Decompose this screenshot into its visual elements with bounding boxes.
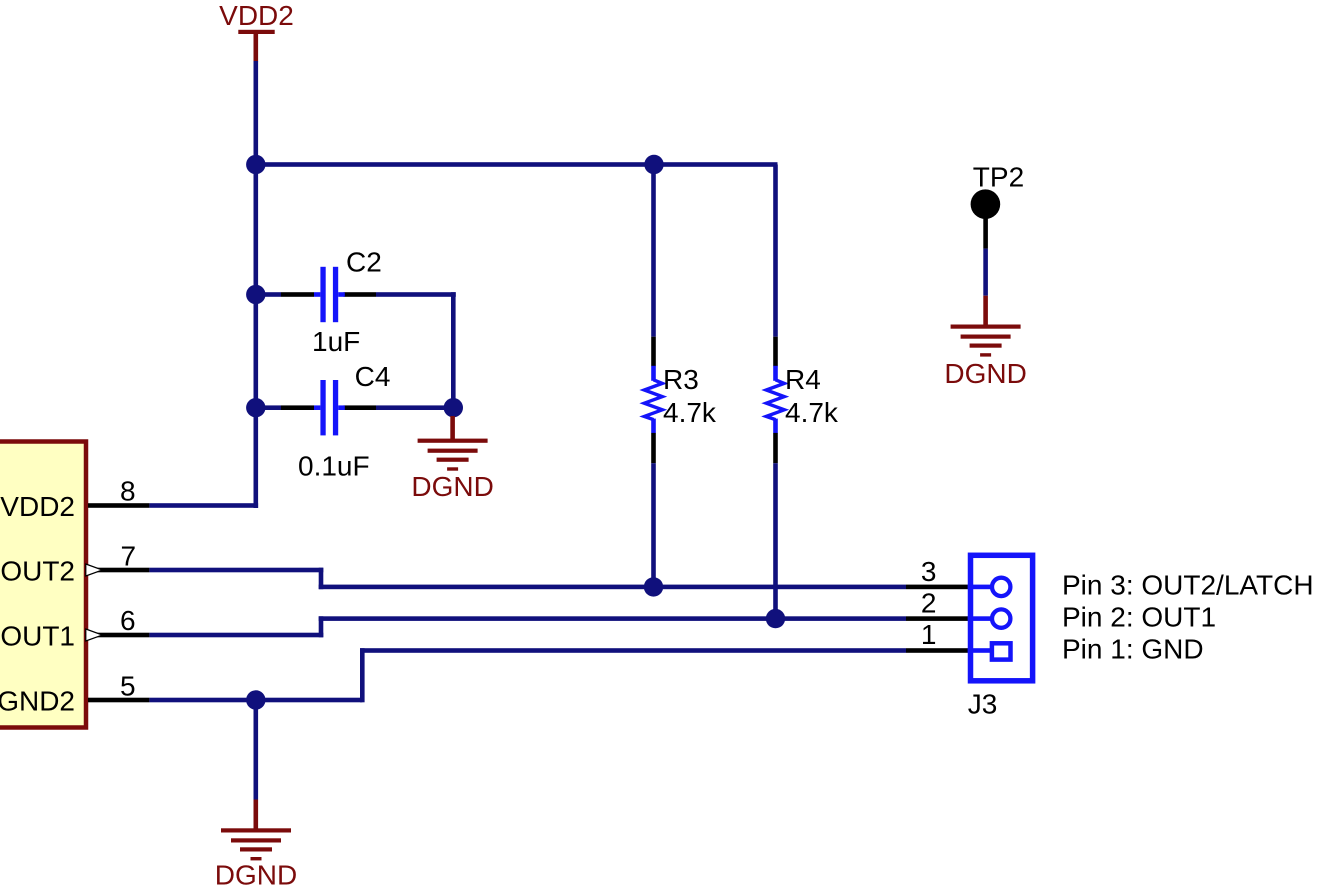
pin 6 lead xyxy=(88,633,149,638)
svg-text:C4: C4 xyxy=(355,361,391,392)
label Pin 1: GND xyxy=(1062,634,1204,665)
svg-text:DGND: DGND xyxy=(215,860,297,890)
J3 pin number 2 xyxy=(921,588,937,619)
svg-text:7: 7 xyxy=(121,541,137,572)
wire C2-C4 right vertical xyxy=(451,292,456,410)
capacitor C4 xyxy=(314,380,345,435)
svg-text:5: 5 xyxy=(120,671,136,702)
svg-text:TP2: TP2 xyxy=(973,161,1024,192)
junction dot R4/OUT1 xyxy=(766,609,785,628)
wire TP2 to ground xyxy=(983,249,988,296)
junction dot at C2 left xyxy=(246,285,265,304)
test point TP2 xyxy=(971,161,1025,248)
svg-text:0.1uF: 0.1uF xyxy=(298,451,370,482)
ground DGND (TP2) xyxy=(944,296,1026,389)
junction dot R3/OUT2 xyxy=(644,577,663,596)
J3 pin number 1 xyxy=(921,619,937,650)
value 1uF xyxy=(312,326,360,357)
svg-text:Pin 3: OUT2/LATCH: Pin 3: OUT2/LATCH xyxy=(1062,570,1314,601)
junction dot at C4 right xyxy=(444,398,463,417)
wire pin8 to rail xyxy=(149,503,258,508)
value 4.7k (R4) xyxy=(785,397,839,428)
wire top horizontal VDD2 rail xyxy=(254,162,778,167)
wire VDD2 vertical main xyxy=(254,61,259,508)
svg-text:6: 6 xyxy=(120,605,136,636)
value 4.7k (R3) xyxy=(663,397,717,428)
IC pin name VDD2 xyxy=(0,491,75,522)
pin 6 output triangle xyxy=(86,629,103,641)
svg-text:OUT2: OUT2 xyxy=(0,556,75,587)
wire OUT2 net xyxy=(149,568,969,590)
label J3 xyxy=(968,688,998,719)
pin number 8 xyxy=(120,476,136,507)
svg-text:DGND: DGND xyxy=(411,471,493,502)
ground DGND (near C4) xyxy=(411,416,493,502)
pin number 7 xyxy=(121,541,137,572)
svg-text:8: 8 xyxy=(120,476,136,507)
svg-text:J3: J3 xyxy=(968,688,998,719)
junction dot at R3 top / rail xyxy=(644,155,663,174)
resistor R3 xyxy=(644,165,662,587)
pin 7 output triangle xyxy=(86,564,103,576)
wire OUT1 net xyxy=(149,616,969,637)
svg-text:R4: R4 xyxy=(785,364,821,395)
J3 pin 1 pad xyxy=(968,643,1011,659)
svg-text:1: 1 xyxy=(921,619,937,650)
svg-text:4.7k: 4.7k xyxy=(785,397,839,428)
svg-text:VDD2: VDD2 xyxy=(0,491,75,522)
IC pin name GND2 xyxy=(0,686,75,717)
wire GND2 ground stem xyxy=(254,700,259,800)
svg-text:3: 3 xyxy=(921,556,937,587)
wire C2 row xyxy=(256,292,456,297)
pin 8 lead xyxy=(88,503,149,508)
junction dot GND2/ground xyxy=(246,690,265,709)
svg-text:C2: C2 xyxy=(346,246,382,277)
IC body (partial, left edge) xyxy=(0,442,86,728)
svg-text:Pin 2: OUT1: Pin 2: OUT1 xyxy=(1062,602,1216,633)
wire GND2 net xyxy=(149,648,969,702)
svg-text:GND2: GND2 xyxy=(0,686,75,717)
svg-text:DGND: DGND xyxy=(944,358,1026,389)
label Pin 3: OUT2/LATCH xyxy=(1062,570,1314,601)
connector J3 body xyxy=(971,555,1033,681)
capacitor C2 xyxy=(314,267,345,322)
IC pin name OUT1 xyxy=(0,621,75,652)
label C2 xyxy=(346,246,382,277)
label R3 xyxy=(663,364,699,395)
ground DGND (bottom) xyxy=(215,800,297,890)
pin number 5 xyxy=(120,671,136,702)
svg-text:VDD2: VDD2 xyxy=(219,0,294,31)
label C4 xyxy=(355,361,391,392)
J3 pin 2 pad xyxy=(968,609,1011,627)
pin number 6 xyxy=(120,605,136,636)
wire C4 row xyxy=(256,405,456,410)
pin 5 lead xyxy=(88,698,149,703)
IC pin name OUT2 xyxy=(0,556,75,587)
power symbol VDD2 xyxy=(219,0,294,61)
svg-text:1uF: 1uF xyxy=(312,326,360,357)
svg-text:2: 2 xyxy=(921,588,937,619)
svg-text:4.7k: 4.7k xyxy=(663,397,717,428)
svg-text:R3: R3 xyxy=(663,364,699,395)
label Pin 2: OUT1 xyxy=(1062,602,1216,633)
resistor R4 xyxy=(766,165,784,620)
label R4 xyxy=(785,364,821,395)
J3 pin number 3 xyxy=(921,556,937,587)
junction dot at C4 left xyxy=(246,398,265,417)
svg-text:Pin 1: GND: Pin 1: GND xyxy=(1062,634,1204,665)
junction dot at VDD2/rail xyxy=(246,155,265,174)
pin 7 lead xyxy=(88,568,149,573)
svg-text:OUT1: OUT1 xyxy=(0,621,75,652)
J3 pin 3 pad xyxy=(968,578,1011,596)
value 0.1uF xyxy=(298,451,370,482)
